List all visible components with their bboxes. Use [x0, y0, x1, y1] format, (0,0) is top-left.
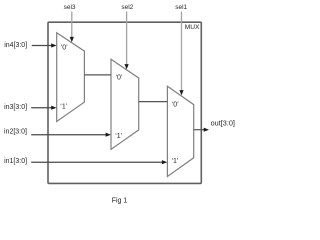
svg-text:MUX: MUX: [185, 24, 200, 31]
svg-text:in3[3:0]: in3[3:0]: [4, 104, 27, 111]
svg-text:sel3: sel3: [64, 4, 76, 11]
svg-text:in4[3:0]: in4[3:0]: [4, 42, 27, 49]
svg-text:‘1’: ‘1’: [60, 104, 67, 111]
svg-text:‘1’: ‘1’: [115, 133, 122, 140]
svg-text:sel1: sel1: [175, 4, 187, 11]
svg-text:Fig 1: Fig 1: [112, 197, 128, 204]
svg-text:out[3:0]: out[3:0]: [211, 119, 235, 128]
svg-text:sel2: sel2: [121, 4, 133, 11]
svg-text:‘1’: ‘1’: [171, 158, 178, 165]
svg-text:in2[3:0]: in2[3:0]: [4, 128, 27, 135]
svg-text:‘0’: ‘0’: [61, 44, 68, 51]
svg-text:‘0’: ‘0’: [115, 74, 122, 81]
svg-text:in1[3:0]: in1[3:0]: [4, 158, 27, 165]
svg-text:‘0’: ‘0’: [172, 101, 179, 108]
